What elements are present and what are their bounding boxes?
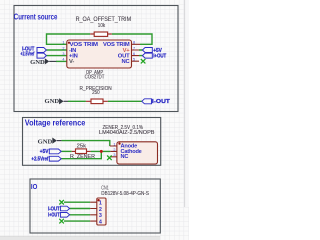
svg-text:GND: GND xyxy=(38,138,53,145)
svg-text:+2.5Vref: +2.5Vref xyxy=(31,156,48,162)
svg-text:8: 8 xyxy=(133,41,135,45)
svg-text:2: 2 xyxy=(113,148,115,152)
svg-text:I-OUT: I-OUT xyxy=(152,99,171,105)
svg-text:NC: NC xyxy=(121,154,129,160)
svg-text:NC: NC xyxy=(121,59,130,65)
svg-text:1: 1 xyxy=(62,41,64,45)
svg-text:Voltage reference: Voltage reference xyxy=(25,119,86,128)
svg-text:3: 3 xyxy=(99,213,102,219)
svg-text:COS27DT: COS27DT xyxy=(85,74,105,80)
svg-text:7: 7 xyxy=(133,46,135,50)
svg-text:V-: V- xyxy=(69,59,74,65)
svg-text:R_ZENER: R_ZENER xyxy=(70,154,95,160)
svg-text:GND: GND xyxy=(45,98,60,105)
svg-text:I+OUT: I+OUT xyxy=(48,213,60,219)
svg-text:+2.5Vref: +2.5Vref xyxy=(20,52,34,58)
svg-text:+5V: +5V xyxy=(40,149,49,155)
svg-text:GND: GND xyxy=(30,59,45,66)
svg-text:IO: IO xyxy=(31,182,38,191)
svg-text:3: 3 xyxy=(62,52,64,56)
svg-text:4: 4 xyxy=(99,219,102,225)
svg-text:5: 5 xyxy=(133,58,135,62)
svg-text:1: 1 xyxy=(99,201,102,207)
svg-text:3: 3 xyxy=(113,153,115,157)
svg-text:2: 2 xyxy=(99,207,102,213)
svg-text:DB128V-5.08-4P-GN-S: DB128V-5.08-4P-GN-S xyxy=(101,191,149,197)
svg-text:6: 6 xyxy=(133,52,135,56)
svg-text:I-OUT: I-OUT xyxy=(48,206,60,212)
svg-text:4: 4 xyxy=(62,58,64,62)
svg-text:LM4040AIZ-2.5/NOPB: LM4040AIZ-2.5/NOPB xyxy=(99,130,155,136)
svg-text:250: 250 xyxy=(92,90,100,96)
svg-text:2: 2 xyxy=(62,46,64,50)
svg-text:1: 1 xyxy=(113,142,115,146)
svg-text:I+OUT: I+OUT xyxy=(153,54,166,60)
svg-text:10k: 10k xyxy=(98,23,106,29)
svg-text:Current source: Current source xyxy=(14,12,58,21)
